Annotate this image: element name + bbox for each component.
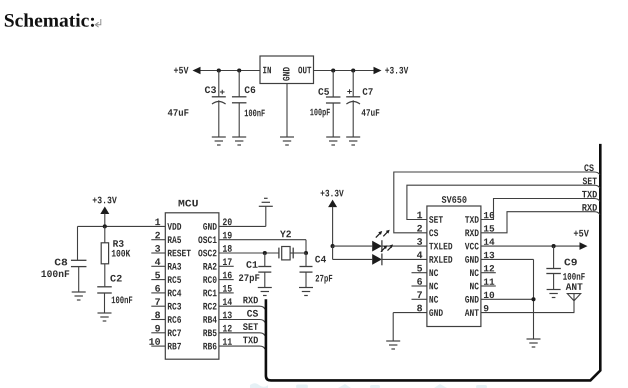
MCU pin 9 stub	[151, 332, 165, 334]
capacitor C5	[326, 97, 341, 103]
MCU pin name OSC1	[198, 236, 216, 243]
ground C2	[98, 313, 112, 321]
wire CS (SV650 pin 2 to bus)	[394, 172, 600, 233]
resistor R3 body	[101, 243, 108, 264]
MCU pin 4 number	[155, 258, 160, 265]
SV650 U3 label	[442, 196, 467, 203]
MCU pin name RC6	[168, 316, 181, 323]
MCU pin name RA2	[203, 263, 216, 270]
capacitor C6 lead top	[238, 71, 240, 97]
antenna ANT symbol	[567, 294, 580, 313]
MCU pin name RB4	[203, 316, 216, 323]
MCU pin name RB5	[203, 330, 216, 337]
capacitor C3 lead bottom	[218, 100, 220, 137]
MCU pin name RB7	[168, 343, 181, 350]
capacitor C5 lead top	[332, 71, 334, 98]
capacitor C3 (electrolytic)	[212, 97, 226, 104]
node junction C3 on +5V rail	[217, 68, 221, 72]
regulator pin label OUT	[298, 67, 311, 74]
wire MCU RXD to bus	[219, 306, 265, 309]
capacitor C8 label	[55, 259, 67, 266]
node junction C5 on +3.3V rail	[331, 68, 335, 72]
MCU pin 3 number	[155, 245, 160, 252]
resistor R3 value 100K	[112, 250, 130, 257]
SV650 pin 11 number	[484, 278, 494, 284]
ground C7	[346, 137, 360, 145]
power arrow +3.3V up (LED)	[328, 200, 337, 208]
SV650 pin name NC	[429, 283, 438, 290]
capacitor C7 lead bottom	[352, 100, 354, 137]
MCU pin 7 stub	[151, 305, 165, 307]
MCU pin 1 number	[155, 219, 160, 226]
capacitor C1 lead top	[264, 253, 266, 267]
SV650 pin name TXLED	[429, 243, 452, 250]
wire +3.3V arrow stem (MCU)	[104, 214, 106, 227]
capacitor C7 value 47uF	[362, 109, 380, 116]
MCU pin 16 stub	[219, 279, 234, 281]
MCU pin name RC3	[168, 303, 181, 310]
net label TXD (bus side)	[582, 191, 597, 198]
MCU pin name VDD	[167, 223, 181, 230]
wire OSC2 to crystal	[219, 252, 279, 254]
power label +3.3V	[385, 67, 408, 74]
SV650 pin name SET	[429, 216, 443, 223]
SV650 pin name NC	[429, 296, 438, 303]
capacitor C5 lead bottom	[332, 103, 334, 137]
MCU pin 17 number	[223, 258, 232, 265]
MCU pin 6 stub	[151, 292, 165, 294]
SV650 pin 2 number	[417, 225, 422, 232]
SV650 pin 3 number	[417, 238, 422, 245]
MCU pin 12 number	[223, 325, 232, 332]
capacitor C9 value 100nF	[563, 273, 585, 280]
node junction C1/OSC2	[263, 251, 267, 255]
capacitor C7 (electrolytic)	[346, 97, 360, 104]
capacitor C6 value 100nF	[245, 110, 265, 117]
capacitor C3 polarity +	[220, 90, 225, 95]
MCU U2 label	[179, 200, 198, 207]
MCU pin 5 stub	[151, 279, 165, 281]
node junction C9/VCC	[552, 244, 556, 248]
capacitor C3 lead top	[218, 71, 220, 97]
wire LED junction drop	[332, 246, 334, 259]
capacitor C5 label	[318, 88, 329, 95]
ground C6	[232, 137, 246, 145]
wire LED2 anode	[333, 258, 373, 260]
capacitor C6	[232, 97, 247, 103]
capacitor C6 lead bottom	[238, 103, 240, 137]
ground C5	[326, 137, 340, 145]
wire SET (SV650 pin 1 to bus)	[407, 185, 600, 219]
net label SET (MCU side)	[243, 323, 258, 330]
MCU pin name RC2	[203, 303, 216, 310]
SV650 pin name TXD	[465, 216, 479, 223]
MCU pin 20 number	[223, 218, 232, 225]
crystal Y2 label	[280, 231, 291, 238]
wire TXD (SV650 pin 16 to bus)	[481, 199, 600, 220]
SV650 pin 13 number	[484, 252, 494, 258]
SV650 pin name NC	[470, 283, 479, 290]
capacitor C6 label	[245, 86, 256, 93]
SV650 pin 12 stub	[481, 272, 496, 274]
capacitor C4 lead bottom	[305, 272, 307, 287]
ground SV650 pin 8	[386, 341, 400, 349]
capacitor C9	[546, 269, 561, 274]
capacitor C1	[258, 267, 271, 273]
SV650 pin 1 number	[417, 212, 422, 219]
SV650 U3 box	[427, 206, 481, 327]
MCU U2 box	[165, 213, 219, 359]
capacitor C9 label	[564, 259, 576, 266]
resistor R3 lead top	[104, 226, 106, 242]
capacitor C7 label	[363, 88, 373, 95]
node junction C7 on +3.3V rail	[351, 68, 355, 72]
capacitor C3 value 47uF	[168, 109, 189, 116]
capacitor C9 lead top	[553, 246, 555, 268]
SV650 pin 9 number	[484, 305, 489, 311]
node junction VDD/R3	[103, 224, 107, 228]
wire C8 leg	[77, 226, 79, 260]
wire LED2 cathode to SV650 pin 4	[382, 258, 427, 260]
SV650 pin 6 number	[417, 278, 422, 285]
SV650 pin 5 stub	[412, 272, 427, 274]
net label RXD (bus side)	[582, 204, 597, 211]
regulator U1 box	[260, 56, 314, 84]
MCU pin 3 stub	[151, 252, 165, 254]
LED D1	[372, 230, 390, 252]
wire MCU SET to bus	[219, 333, 265, 336]
MCU pin 7 number	[155, 298, 160, 305]
antenna ANT label	[566, 283, 583, 290]
SV650 pin 8 number	[417, 305, 422, 312]
resistor R3 lead bottom	[104, 264, 106, 287]
SV650 pin 5 number	[417, 265, 422, 272]
MCU pin 19 number	[223, 232, 232, 239]
power arrow +3.3V (points right)	[374, 67, 382, 75]
MCU pin 5 number	[155, 272, 160, 279]
LED D2	[372, 244, 393, 265]
MCU pin 10 number	[149, 338, 160, 345]
capacitor C9 lead bottom	[553, 274, 555, 290]
ground C3	[212, 137, 226, 145]
wire RXD (SV650 pin 15 to bus)	[481, 212, 600, 233]
capacitor C8	[71, 260, 87, 266]
SV650 pin 12 number	[484, 265, 494, 271]
node junction C6 on +5V rail	[237, 68, 241, 72]
SV650 pin 16 number	[484, 212, 494, 218]
MCU pin name RA5	[168, 236, 181, 243]
MCU pin 4 stub	[151, 265, 165, 267]
MCU pin name OSC2	[198, 250, 216, 257]
power arrow +3.3V up (MCU)	[100, 207, 109, 215]
power arrow +5V (points left)	[193, 67, 201, 75]
SV650 pin name NC	[470, 269, 479, 276]
MCU pin 13 number	[223, 312, 232, 319]
SV650 pin 4 number	[417, 252, 422, 259]
capacitor C7 polarity +	[347, 89, 352, 94]
wire VCC to +5V	[481, 245, 580, 247]
net label TXD (MCU side)	[243, 337, 258, 344]
capacitor C2 value 100nF	[112, 296, 133, 303]
wire LED1 cathode to SV650 pin 3	[382, 245, 427, 247]
SV650 pin name NC	[429, 269, 438, 276]
MCU pin 9 number	[155, 325, 160, 332]
capacitor C3 label	[205, 86, 216, 93]
MCU pin name GND	[203, 223, 217, 230]
capacitor C2 lead bottom	[104, 293, 106, 313]
SV650 pin name RXD	[465, 230, 478, 237]
MCU pin 6 number	[155, 285, 160, 292]
ground C1	[258, 288, 272, 296]
MCU pin 8 number	[155, 312, 160, 319]
wire MCU GND pin 20	[219, 206, 266, 226]
SV650 pin name GND	[429, 309, 443, 316]
wire OSC1 to crystal	[219, 240, 306, 253]
MCU pin 14 number	[223, 298, 232, 305]
MCU pin 10 stub	[151, 345, 165, 347]
wire SV650 GND pin 13	[481, 259, 534, 339]
MCU pin 15 number	[223, 285, 232, 292]
regulator pin label GND (rotated)	[283, 67, 290, 80]
net label RXD (MCU side)	[243, 297, 258, 304]
net label CS (bus side)	[584, 164, 593, 171]
ground C9	[547, 290, 561, 298]
capacitor C1 value 27pF	[239, 274, 259, 283]
ground C4	[299, 288, 313, 296]
MCU pin name RB6	[203, 343, 216, 350]
SV650 pin name GND	[465, 256, 479, 263]
MCU pin 15 stub	[219, 292, 234, 294]
node junction GND10/GND13	[531, 297, 535, 301]
capacitor C4 label	[315, 256, 326, 263]
capacitor C4 lead top	[305, 253, 307, 267]
power arrow +5V right (points right)	[580, 242, 588, 250]
watermark (faint)	[250, 383, 487, 388]
wire +3.3V rail	[314, 70, 375, 72]
capacitor C2	[97, 287, 112, 293]
ground C8	[72, 292, 86, 300]
SV650 pin name CS	[429, 229, 438, 236]
capacitor C1 lead bottom	[264, 272, 266, 287]
regulator pin label IN	[263, 67, 271, 74]
MCU pin name RC4	[168, 290, 181, 297]
MCU pin name RC7	[168, 329, 181, 336]
SV650 pin 15 number	[484, 225, 494, 231]
SV650 pin 11 stub	[481, 285, 496, 287]
power label +3.3V (LED)	[321, 190, 344, 197]
capacitor C4 value 27pF	[316, 275, 333, 284]
bus (thick line MCU to SV650)	[266, 144, 600, 381]
power label +5V (SV650)	[574, 230, 589, 237]
SV650 pin name RXLED	[429, 256, 452, 263]
wire +5V rail	[201, 70, 261, 72]
SV650 pin 7 stub	[412, 298, 427, 300]
MCU pin name RC5	[168, 276, 181, 283]
MCU pin name RC1	[203, 290, 216, 297]
capacitor C5 value 100pF	[310, 109, 330, 118]
net label CS (MCU side)	[247, 310, 258, 317]
MCU pin name RESET	[168, 250, 191, 257]
MCU pin 8 stub	[151, 319, 165, 321]
MCU pin name RA3	[168, 263, 181, 270]
wire SV650 GND pin 10	[481, 298, 534, 300]
SV650 pin 6 stub	[412, 285, 427, 287]
capacitor C2 label	[110, 275, 121, 282]
MCU pin 2 stub	[151, 239, 165, 241]
power label +3.3V (MCU)	[93, 197, 117, 204]
capacitor C4	[300, 267, 313, 273]
ground regulator	[280, 137, 294, 145]
wire MCU TXD to bus	[219, 346, 265, 349]
MCU pin 17 stub	[219, 265, 234, 267]
wire VDD rail	[78, 225, 166, 227]
capacitor C7 lead top	[352, 71, 354, 97]
MCU pin 16 number	[223, 272, 232, 279]
node junction LED anode	[331, 244, 335, 248]
wire SV650 GND pin 8	[393, 313, 427, 341]
SV650 pin name VCC	[465, 243, 479, 250]
power label +5V	[174, 67, 189, 74]
wire LED1 anode	[333, 245, 373, 247]
SV650 pin 7 number	[417, 291, 422, 298]
MCU pin 2 number	[155, 232, 160, 239]
SV650 pin name GND	[465, 296, 479, 303]
SV650 pin name ANT	[465, 309, 479, 316]
title text "Schematic:"	[5, 13, 94, 26]
capacitor C8 lead bottom	[78, 267, 80, 292]
MCU pin 18 number	[223, 245, 232, 252]
MCU pin 11 number	[223, 338, 232, 345]
wire ANT (SV650 pin 9)	[481, 312, 575, 314]
capacitor C8 value 100nF	[41, 270, 69, 277]
SV650 pin 10 number	[484, 292, 494, 298]
paragraph return mark	[95, 19, 101, 27]
wire MCU CS to bus	[219, 320, 265, 323]
wire +3.3V arrow stem (LED)	[332, 207, 334, 247]
ground MCU pin 20 (up)	[259, 198, 273, 206]
node junction C4/crystal	[304, 251, 308, 255]
resistor R3 label	[113, 240, 123, 247]
ground SV650 pin 13	[527, 339, 541, 347]
MCU pin name RC0	[203, 276, 216, 283]
capacitor C1 label	[246, 261, 257, 268]
crystal Y2	[279, 247, 306, 260]
SV650 pin 14 number	[484, 239, 494, 245]
wire regulator GND stem	[286, 84, 288, 138]
net label SET (bus side)	[583, 178, 597, 185]
